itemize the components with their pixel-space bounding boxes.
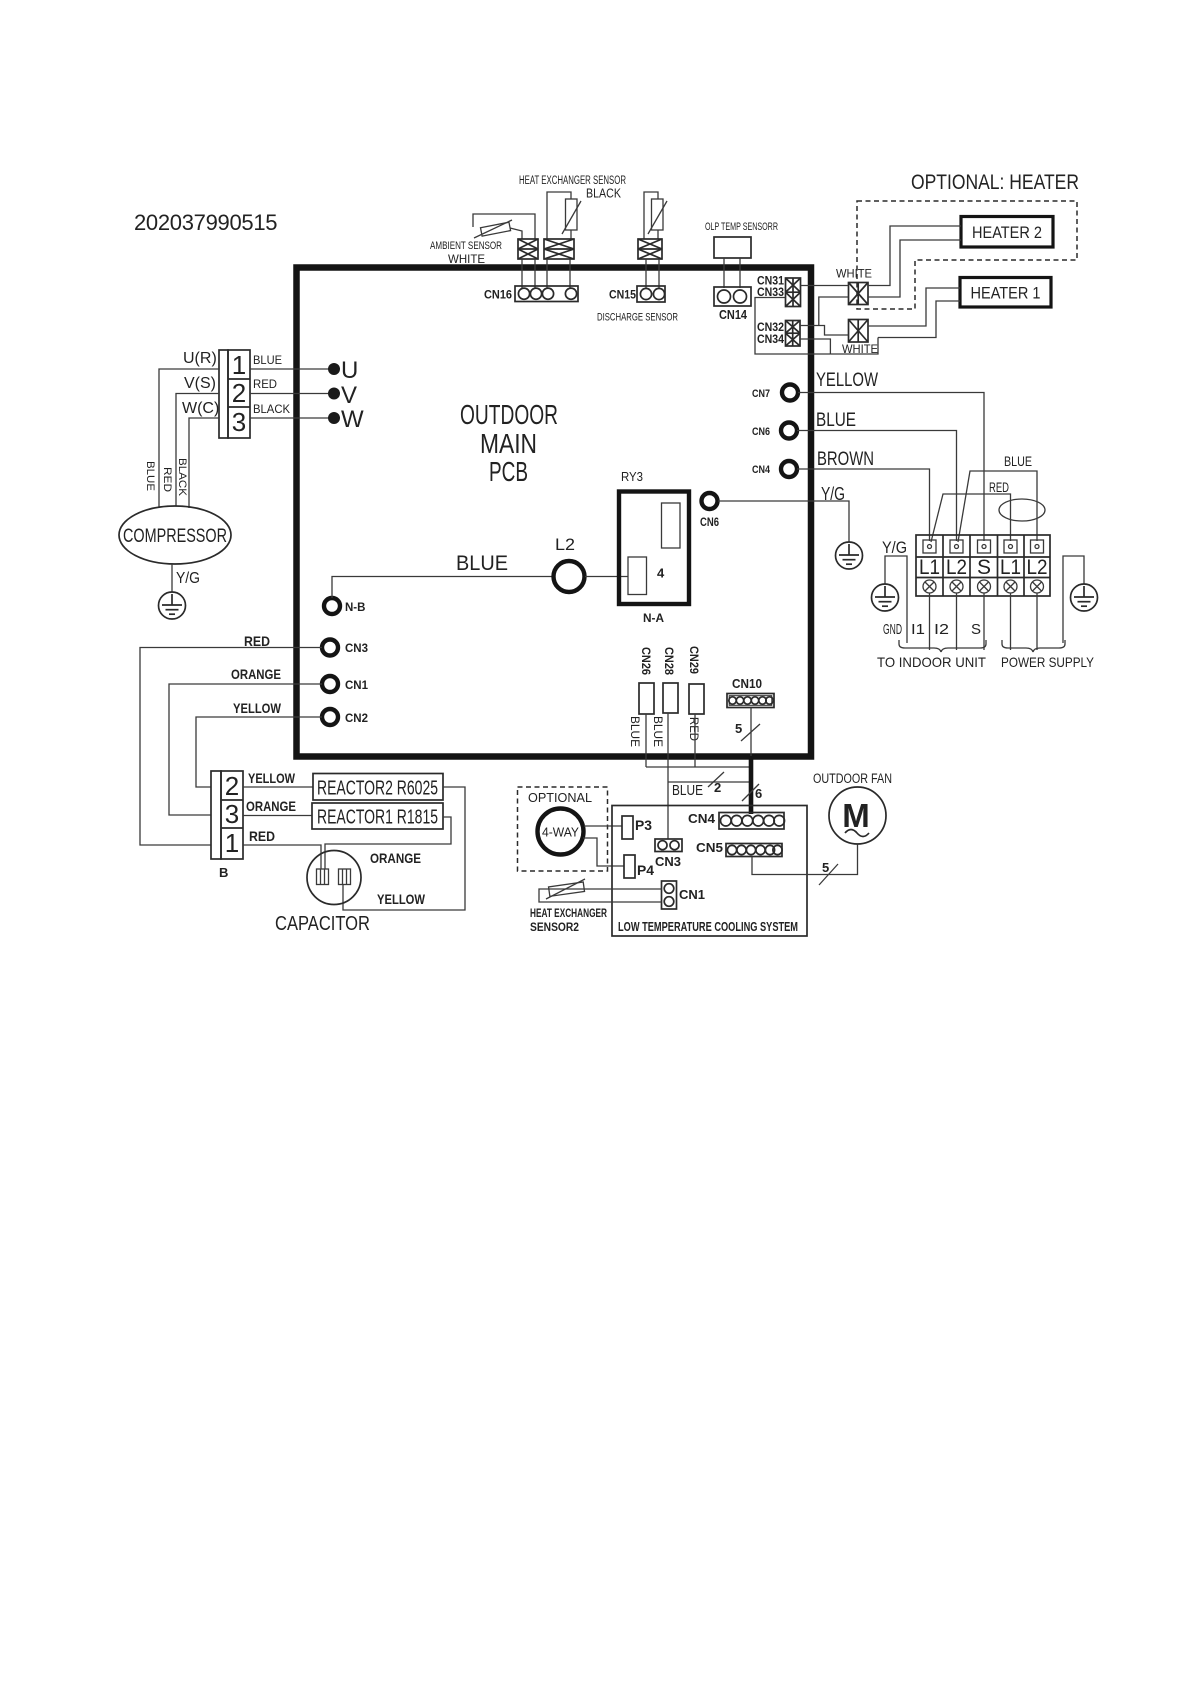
wire blue L2 to power L2 <box>958 471 1037 542</box>
svg-text:LOW TEMPERATURE COOLING SYSTEM: LOW TEMPERATURE COOLING SYSTEM <box>618 919 798 934</box>
terminal P3 <box>622 816 633 839</box>
svg-text:S: S <box>977 556 991 579</box>
svg-text:TO INDOOR UNIT: TO INDOOR UNIT <box>877 654 986 670</box>
svg-text:L2: L2 <box>1027 556 1048 579</box>
svg-text:BLUE: BLUE <box>456 552 508 575</box>
svg-text:CN4: CN4 <box>752 464 771 476</box>
wire junction to CN4 thick <box>668 781 751 783</box>
svg-text:202037990515: 202037990515 <box>134 210 277 235</box>
node CN1 <box>322 676 338 692</box>
plug white (heater1) <box>849 320 869 343</box>
svg-text:1: 1 <box>232 350 246 380</box>
svg-text:B: B <box>219 865 228 880</box>
discharge sensor loop wire <box>644 192 658 239</box>
svg-text:CN5: CN5 <box>696 840 723 855</box>
svg-text:BLUE: BLUE <box>672 782 703 799</box>
svg-text:2: 2 <box>232 378 246 408</box>
connector CN32/CN34 <box>786 321 801 347</box>
wire under plug2 <box>830 338 878 355</box>
svg-text:DISCHARGE SENSOR: DISCHARGE SENSOR <box>597 312 678 324</box>
wire N-B to L2 blue <box>332 577 553 599</box>
svg-text:POWER SUPPLY: POWER SUPPLY <box>1001 654 1095 670</box>
svg-text:BLUE: BLUE <box>651 716 663 747</box>
wire plug to heater2 upper <box>868 226 961 286</box>
svg-text:BLUE: BLUE <box>816 410 856 431</box>
svg-text:2: 2 <box>714 780 721 795</box>
svg-text:L2: L2 <box>555 535 575 554</box>
slash 5 mark (fan) <box>819 864 838 885</box>
svg-text:Y/G: Y/G <box>821 484 845 504</box>
svg-text:4: 4 <box>657 566 665 581</box>
plug connector white (ambient) <box>518 239 538 259</box>
svg-text:AMBIENT SENSOR: AMBIENT SENSOR <box>430 240 502 252</box>
node U dot <box>328 363 340 375</box>
slash 2 mark <box>708 772 724 787</box>
wire compressor to ground <box>171 564 173 592</box>
svg-text:L1: L1 <box>1000 556 1021 579</box>
wire CN29 down <box>694 714 696 767</box>
svg-text:W(C): W(C) <box>182 400 219 417</box>
svg-text:YELLOW: YELLOW <box>233 700 282 716</box>
wire CN2 yellow to terminal B2 <box>196 717 322 787</box>
wire CN10 down <box>750 708 752 759</box>
screw terminals bottom row <box>923 580 1044 593</box>
node N-B <box>324 598 340 614</box>
wire B3 to reactor1 <box>243 815 312 817</box>
svg-text:OPTIONAL: OPTIONAL <box>528 790 592 805</box>
wire terminal1 to U dot <box>250 368 328 370</box>
svg-text:OUTDOOR: OUTDOOR <box>460 399 558 430</box>
svg-text:5: 5 <box>735 721 742 736</box>
svg-text:RED: RED <box>687 717 699 741</box>
wire reactor1 orange to capacitor <box>325 817 451 869</box>
svg-text:3: 3 <box>225 799 239 829</box>
svg-text:RY3: RY3 <box>621 470 643 484</box>
connector CN14 <box>714 287 751 306</box>
svg-text:N-B: N-B <box>345 602 365 614</box>
svg-text:CN16: CN16 <box>484 288 512 302</box>
svg-text:PCB: PCB <box>489 456 528 487</box>
wire CN4 brown to terminal L1 <box>797 469 930 541</box>
terminal P4 <box>624 855 635 878</box>
relay RY3 contact 1 <box>662 503 681 548</box>
ground (compressor) <box>159 592 186 619</box>
svg-text:CN6: CN6 <box>700 517 719 529</box>
svg-text:WHITE: WHITE <box>836 267 872 281</box>
svg-text:CN32: CN32 <box>757 322 784 334</box>
wire GND to ground left <box>885 556 907 643</box>
wire plug2 to heater1 upper <box>868 288 960 326</box>
svg-text:OLP TEMP SENSORR: OLP TEMP SENSORR <box>705 221 778 233</box>
svg-text:L1: L1 <box>919 556 940 579</box>
motor M outdoor fan <box>829 787 886 844</box>
heater HEATER 1 box <box>960 278 1051 308</box>
slash 5 mark <box>741 724 760 741</box>
svg-text:YELLOW: YELLOW <box>816 370 878 391</box>
wire CN6 to Y/G ground <box>718 501 849 542</box>
svg-text:RED: RED <box>244 633 270 649</box>
svg-text:BLUE: BLUE <box>253 355 282 367</box>
svg-text:3: 3 <box>232 407 246 437</box>
wire terminal2 to V dot <box>250 393 328 395</box>
svg-text:WHITE: WHITE <box>448 252 485 266</box>
svg-text:CAPACITOR: CAPACITOR <box>275 913 370 935</box>
connector CN26 <box>639 683 654 714</box>
svg-text:I1: I1 <box>911 621 925 638</box>
svg-text:V(S): V(S) <box>184 375 216 392</box>
wire reactor2 yellow to capacitor <box>343 787 465 910</box>
wire plug to heater2 lower <box>868 240 961 297</box>
svg-text:CN6: CN6 <box>752 426 770 438</box>
terminal block 1-2-3 (compressor) <box>219 350 250 438</box>
compressor <box>119 506 231 564</box>
svg-text:CN14: CN14 <box>719 308 747 322</box>
wire V(S) to compressor red <box>176 394 219 507</box>
OLP temp sensor box <box>714 237 751 258</box>
wire U(R) to compressor blue <box>159 369 219 508</box>
node CN7 <box>782 385 798 401</box>
svg-text:BLACK: BLACK <box>586 187 622 201</box>
svg-text:HEATER 1: HEATER 1 <box>971 284 1041 303</box>
svg-text:CN3: CN3 <box>345 643 368 655</box>
brace POWER SUPPLY <box>1002 640 1065 652</box>
connector CN10 <box>727 694 774 708</box>
svg-text:4-WAY: 4-WAY <box>542 825 579 840</box>
svg-text:2: 2 <box>225 771 239 801</box>
svg-text:HEAT EXCHANGER SENSOR: HEAT EXCHANGER SENSOR <box>519 175 626 187</box>
wire B2 to reactor2 <box>243 786 313 788</box>
connector CN4 <box>719 813 785 830</box>
svg-text:BLUE: BLUE <box>628 716 640 747</box>
svg-text:6: 6 <box>755 786 762 801</box>
svg-text:REACTOR2 R6025: REACTOR2 R6025 <box>317 778 438 800</box>
svg-text:CN28: CN28 <box>662 647 674 676</box>
svg-text:ORANGE: ORANGE <box>246 798 296 814</box>
terminal block (indoor/power) <box>916 535 1050 596</box>
connector CN5 <box>726 844 782 857</box>
svg-text:CN10: CN10 <box>732 677 762 691</box>
svg-text:CN29: CN29 <box>687 646 699 674</box>
wire CN10 to CN4 thick <box>749 756 754 814</box>
wire red L1 to power L1 <box>931 494 1011 542</box>
svg-text:BLUE: BLUE <box>1004 453 1032 469</box>
wire thermistor to plug <box>510 228 522 239</box>
svg-text:W: W <box>341 406 364 433</box>
svg-text:RED: RED <box>989 479 1009 495</box>
wire junction horizontal <box>646 766 751 768</box>
svg-text:N-A: N-A <box>643 611 664 625</box>
svg-text:YELLOW: YELLOW <box>248 770 296 786</box>
svg-text:BLACK: BLACK <box>176 458 188 497</box>
svg-text:HEATER 2: HEATER 2 <box>972 223 1042 242</box>
low temperature cooling system box <box>612 806 807 937</box>
relay RY3 contact 2 <box>628 557 647 595</box>
svg-text:BLUE: BLUE <box>144 461 156 491</box>
reactor REACTOR2 R6025 <box>313 774 443 801</box>
plug white (heater2) <box>849 283 869 305</box>
svg-text:OUTDOOR FAN: OUTDOOR FAN <box>813 771 892 786</box>
svg-text:REACTOR1 R1815: REACTOR1 R1815 <box>317 807 438 829</box>
terminal block B <box>211 771 243 859</box>
svg-text:CN34: CN34 <box>757 334 785 346</box>
svg-text:I2: I2 <box>934 621 949 638</box>
wires plugs to CN16 <box>521 259 523 288</box>
slash 6 mark <box>742 784 759 801</box>
svg-text:RED: RED <box>253 379 277 391</box>
wire W(C) to compressor black <box>189 418 219 508</box>
valve 4-WAY <box>538 809 584 855</box>
svg-text:RED: RED <box>161 467 173 492</box>
wire CN5 to motor <box>752 845 858 875</box>
wire CN1 orange to terminal B3 <box>169 684 322 815</box>
wire plug2 to heater1 lower <box>878 301 960 338</box>
wire plug lower pin down <box>819 297 849 326</box>
connector CN1 (low temp) <box>662 881 677 909</box>
wire 4-way to P3 <box>584 825 622 827</box>
svg-text:OPTIONAL: HEATER: OPTIONAL: HEATER <box>911 171 1079 194</box>
svg-text:CN31: CN31 <box>757 276 785 288</box>
node CN4 <box>781 461 797 477</box>
relay RY3 <box>619 492 689 605</box>
wire power supply ground <box>1063 556 1084 643</box>
svg-text:COMPRESSOR: COMPRESSOR <box>123 526 227 547</box>
svg-text:5: 5 <box>822 860 829 875</box>
svg-text:HEAT EXCHANGER: HEAT EXCHANGER <box>530 908 607 920</box>
plug connector black (heat exchanger) <box>544 239 574 259</box>
svg-text:CN1: CN1 <box>679 887 705 902</box>
node CN6 (relay) <box>702 493 718 509</box>
capacitor <box>307 851 361 905</box>
wire B1 red to capacitor <box>243 845 321 869</box>
wire CN3 red to terminal B1 <box>140 648 322 846</box>
heat exchanger sensor loop wire <box>547 192 571 239</box>
svg-text:U(R): U(R) <box>183 350 217 367</box>
svg-text:CN15: CN15 <box>609 288 636 302</box>
ground (indoor unit) <box>872 584 899 611</box>
svg-text:CN3: CN3 <box>655 854 681 869</box>
svg-text:Y/G: Y/G <box>176 570 200 587</box>
wire CN32 right to plug2 upper pin <box>800 326 849 336</box>
svg-text:V: V <box>341 382 357 409</box>
plug connector (discharge) <box>638 239 662 259</box>
optional heater dashed boundary <box>857 201 1077 309</box>
connector CN31/CN33 <box>786 278 801 307</box>
wires below terminals <box>930 593 1038 650</box>
wire CN6 blue to terminal L2 <box>797 431 957 542</box>
svg-text:CN26: CN26 <box>639 647 651 675</box>
heater HEATER 2 box <box>961 217 1053 248</box>
node CN6 <box>781 423 797 439</box>
connector CN29 <box>689 684 704 714</box>
wires OLP to CN14 <box>723 258 725 288</box>
svg-text:ORANGE: ORANGE <box>370 850 421 866</box>
svg-text:CN1: CN1 <box>345 680 369 692</box>
svg-text:ORANGE: ORANGE <box>231 666 281 682</box>
svg-text:CN4: CN4 <box>688 811 716 826</box>
svg-text:BROWN: BROWN <box>817 449 874 470</box>
wire CN31 to plug <box>801 285 849 287</box>
svg-text:L2: L2 <box>946 556 967 579</box>
ambient sensor thermistor <box>480 222 510 236</box>
screw terminals top row <box>923 540 1044 553</box>
twisted pair ellipse <box>999 499 1045 521</box>
capacitor terminal left <box>317 869 329 885</box>
svg-text:U: U <box>341 357 358 384</box>
svg-text:P4: P4 <box>637 862 654 878</box>
ground (Y/G right of PCB) <box>836 542 863 569</box>
node V dot <box>328 388 340 400</box>
wire L2 to RY3 <box>585 576 628 578</box>
svg-text:MAIN: MAIN <box>480 428 537 459</box>
svg-text:P3: P3 <box>635 817 652 833</box>
heat exchanger sensor thermistor <box>566 199 578 230</box>
svg-text:S: S <box>971 621 981 638</box>
wire CN26 down <box>645 714 647 767</box>
node CN2 <box>322 709 338 725</box>
outdoor main PCB board outline <box>297 268 812 757</box>
svg-text:GND: GND <box>883 621 902 638</box>
node CN3 <box>322 640 338 656</box>
brace TO INDOOR UNIT <box>899 640 986 652</box>
svg-text:BLACK: BLACK <box>253 404 290 416</box>
heat exchanger sensor2 loop <box>539 889 662 902</box>
capacitor terminal right <box>339 869 351 885</box>
reactor REACTOR1 R1815 <box>312 803 443 829</box>
connector CN28 <box>663 683 678 713</box>
heat exchanger sensor2 thermistor <box>549 882 585 896</box>
svg-text:SENSOR2: SENSOR2 <box>530 922 579 934</box>
optional 4-way dashed box <box>518 787 608 871</box>
wire 4-way to P4 <box>583 838 624 866</box>
svg-text:CN2: CN2 <box>345 713 368 725</box>
discharge sensor thermistor <box>652 199 664 230</box>
wire CN28 down to CN3 (low temp) <box>667 713 669 839</box>
svg-text:RED: RED <box>249 828 275 844</box>
svg-text:M: M <box>842 797 870 834</box>
wire CN34 right down <box>800 339 830 354</box>
wire CN7 yellow to terminal S <box>798 393 984 542</box>
svg-text:YELLOW: YELLOW <box>377 891 426 907</box>
ground (power supply) <box>1071 584 1098 611</box>
connector CN3 (low temp) <box>655 839 682 852</box>
node W dot <box>328 412 340 424</box>
wires plug to CN15 <box>645 259 647 288</box>
wire loop to CN33 <box>755 298 830 355</box>
wire terminal3 to W dot <box>250 417 328 419</box>
ambient sensor loop wire <box>473 214 535 239</box>
svg-text:CN7: CN7 <box>752 388 770 400</box>
svg-text:Y/G: Y/G <box>882 538 907 557</box>
coil L2 <box>554 561 585 592</box>
connector CN16 <box>515 286 578 302</box>
svg-text:1: 1 <box>225 828 239 858</box>
connector CN15 <box>637 286 665 302</box>
